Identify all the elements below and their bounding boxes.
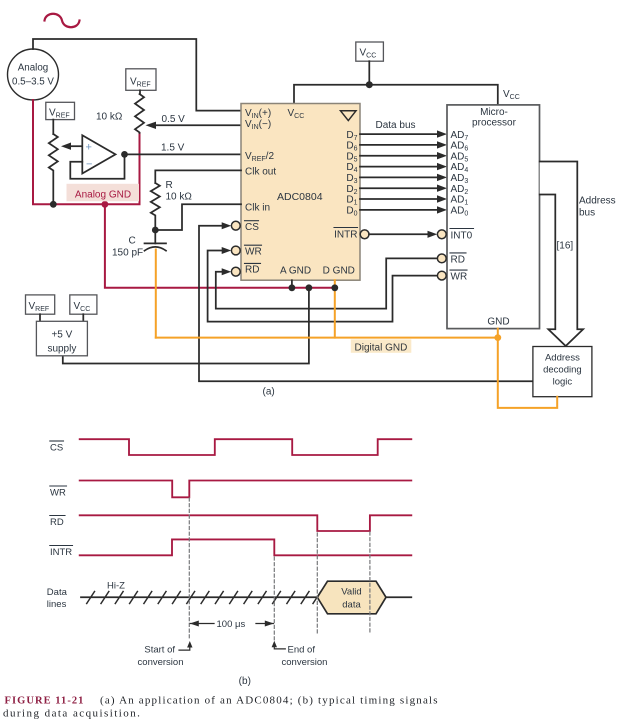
wire: 0.5 V tap to ADC VIN(-)	[155, 124, 241, 126]
svg-text:150 pF: 150 pF	[112, 248, 143, 259]
label: Data lines	[47, 587, 68, 610]
op-amp U1 (voltage follower)	[82, 135, 115, 173]
svg-text:Micro-: Micro-	[480, 107, 508, 118]
VCC box (supply output)	[70, 295, 97, 314]
svg-text:End of: End of	[288, 644, 316, 655]
svg-text:INTR: INTR	[50, 547, 72, 558]
analog source circle "Analog 0.5-3.5 V"	[8, 49, 59, 100]
wire: RD control (micro RD to ADC RD)	[216, 258, 437, 308]
svg-text:+5 V: +5 V	[51, 330, 72, 341]
svg-text:conversion: conversion	[282, 657, 328, 668]
svg-text:Address: Address	[579, 196, 616, 207]
label: RD waveform	[50, 516, 65, 529]
wire: digital GND bus (orange)	[156, 338, 557, 408]
wiper arrow of R2 (0.5 V tap)	[146, 122, 157, 129]
wire: junction to Clk in	[155, 204, 241, 230]
wire: micro GND stub (orange)	[497, 329, 499, 338]
svg-text:10 kΩ: 10 kΩ	[96, 112, 123, 123]
svg-text:1.5 V: 1.5 V	[161, 143, 185, 154]
pin circle: ADC WR	[231, 246, 240, 255]
svg-text:ADC0804: ADC0804	[277, 191, 323, 203]
svg-text:(a) An application of an ADC08: (a) An application of an ADC0804; (b) ty…	[100, 695, 439, 707]
node: op-amp output	[121, 151, 128, 158]
potentiometer R3 (vertical zigzag)	[49, 134, 58, 204]
VREF box (supply output)	[26, 295, 55, 314]
svg-text:[16]: [16]	[557, 241, 574, 252]
svg-text:INT0: INT0	[451, 230, 473, 241]
label: WR waveform	[50, 486, 67, 499]
dashed line: RD rise	[369, 532, 371, 635]
address decoding logic box	[533, 347, 592, 397]
data bus lines D7..D0 to AD7..AD0	[360, 134, 439, 210]
resistor R 10k: wire from Clk out	[155, 170, 241, 183]
node: supply return on bus	[306, 284, 313, 291]
svg-text:Clk in: Clk in	[245, 202, 270, 213]
potentiometer R2 10k (vertical zigzag)	[135, 94, 144, 133]
wire: CS control (address decoder to ADC CS)	[199, 226, 533, 382]
capacitor C 150 pF	[145, 230, 167, 251]
node: R/C/Clk-in junction	[152, 227, 159, 234]
data bus arrowheads	[437, 130, 447, 213]
svg-text:CS: CS	[50, 443, 63, 454]
wire: op-amp output 1.5 V to ADC VREF/2	[125, 153, 242, 155]
waveform: CS	[80, 439, 412, 455]
pin circle: micro RD	[437, 254, 446, 263]
svg-text:Valid: Valid	[341, 587, 361, 598]
waveform: WR	[80, 481, 412, 498]
hatch marks on Hi-Z bus	[87, 592, 321, 604]
arrowhead into ADC WR	[222, 247, 232, 254]
resistor R 10k (vertical zigzag)	[151, 183, 160, 230]
svg-text:data: data	[342, 600, 361, 611]
svg-text:+: +	[86, 142, 92, 154]
svg-text:supply: supply	[47, 344, 76, 355]
svg-text:during data acquisition.: during data acquisition.	[3, 708, 141, 720]
wire: WR control (micro WR to ADC WR)	[208, 251, 438, 322]
pin circle: ADC INTR	[360, 230, 369, 239]
node: D GND on A GND bus	[331, 284, 338, 291]
svg-text:WR: WR	[451, 272, 468, 283]
wire: analog source top to ADC VIN(+)	[33, 39, 241, 111]
arrowhead into ADC RD	[222, 268, 232, 275]
wire: analog source bottom to Analog GND bus (crimson)	[33, 100, 140, 204]
dashed line: RD fall	[316, 533, 318, 635]
svg-text:Data: Data	[47, 587, 68, 598]
wiper arrow of R3 to op-amp	[61, 143, 71, 150]
svg-text:0.5 V: 0.5 V	[162, 114, 186, 125]
dashed line: start of conversion	[188, 498, 190, 640]
waveform: data line after valid data	[386, 596, 411, 598]
node: digital GND junction (orange dot)	[494, 334, 501, 341]
wire: op-amp feedback loop	[70, 154, 124, 178]
svg-text:decoding: decoding	[543, 365, 582, 376]
wire: A GND stub	[291, 280, 293, 288]
svg-text:−: −	[86, 159, 92, 171]
dashed line: end of conversion	[273, 557, 275, 640]
svg-text:Start of: Start of	[144, 644, 175, 655]
svg-text:RD: RD	[451, 254, 465, 265]
svg-text:FIGURE 11-21: FIGURE 11-21	[5, 696, 85, 707]
wire: R3 wiper to op-amp + input	[70, 145, 82, 147]
valid data hexagon	[317, 581, 386, 614]
VCC box (top)	[356, 42, 384, 61]
address bus hollow arrow	[540, 162, 583, 347]
node: VCC junction	[366, 81, 373, 88]
svg-text:lines: lines	[47, 599, 67, 610]
svg-text:Clk out: Clk out	[245, 167, 276, 178]
wire: D GND stub to digital GND bus (orange)	[334, 280, 336, 337]
svg-text:RD: RD	[50, 517, 64, 528]
arrowhead into INT0	[428, 231, 438, 238]
svg-text:INTR: INTR	[334, 229, 357, 240]
wire: VREF box stub to supply	[39, 314, 41, 321]
label: End of conversion	[272, 641, 328, 668]
node: A GND on bus	[289, 284, 296, 291]
waveform: data line (Hi-Z segment)	[81, 596, 317, 598]
svg-text:Digital GND: Digital GND	[355, 343, 408, 354]
dimension arrows: 100 us	[190, 619, 274, 630]
wire: INTR to INT0	[369, 233, 429, 235]
VREF box (op-amp potentiometer)	[46, 102, 75, 119]
waveform: INTR	[80, 539, 412, 555]
svg-text:Hi-Z: Hi-Z	[107, 581, 125, 592]
VREF box (top potentiometer)	[126, 69, 156, 91]
label: Analog GND	[67, 184, 140, 202]
wire: VREF box to potentiometer R3	[52, 120, 54, 134]
svg-text:bus: bus	[579, 208, 595, 219]
microprocessor U3	[447, 105, 540, 329]
svg-text:(a): (a)	[263, 387, 275, 398]
waveform: RD	[80, 515, 412, 531]
svg-text:A GND: A GND	[280, 265, 311, 276]
wire: capacitor to digital GND (orange)	[155, 250, 157, 338]
wire: VCC box stub	[368, 61, 370, 84]
svg-text:D GND: D GND	[323, 265, 355, 276]
svg-text:(b): (b)	[239, 676, 251, 687]
pin circle: micro INT0	[437, 230, 446, 239]
ADC0804 chip U2	[241, 104, 360, 281]
label: CS waveform	[50, 441, 64, 454]
wire: analog GND down to A GND bus (crimson)	[105, 204, 335, 287]
svg-text:Analog GND: Analog GND	[75, 190, 131, 201]
label: Digital GND	[351, 339, 412, 353]
pin circle: micro WR	[437, 271, 446, 280]
svg-text:VIN(−): VIN(−)	[245, 119, 271, 131]
svg-text:10 kΩ: 10 kΩ	[166, 192, 193, 203]
svg-text:WR: WR	[245, 247, 262, 258]
svg-text:Address: Address	[545, 353, 580, 364]
svg-text:C: C	[129, 236, 136, 247]
svg-text:Data bus: Data bus	[376, 120, 416, 131]
svg-text:CS: CS	[245, 222, 259, 233]
wire: VCC box stub to supply	[82, 314, 84, 321]
node: R3 bottom on analog GND bus	[50, 201, 57, 208]
wire: VCC net (ADC VCC pin to microprocessor VCC)	[294, 85, 498, 105]
svg-text:logic: logic	[553, 377, 573, 388]
wire: VREF box to potentiometer R2	[139, 90, 141, 94]
TIMING DIAGRAM (b)	[47, 439, 412, 687]
svg-text:WR: WR	[50, 488, 66, 499]
arrowhead into CS	[222, 222, 232, 229]
label: INTR waveform	[50, 546, 73, 559]
svg-text:Analog: Analog	[18, 63, 49, 74]
svg-text:conversion: conversion	[138, 657, 184, 668]
svg-text:processor: processor	[472, 118, 517, 129]
svg-text:0.5–3.5 V: 0.5–3.5 V	[12, 77, 54, 88]
wire: +5V supply ground return	[63, 288, 309, 364]
svg-text:GND: GND	[487, 317, 509, 328]
svg-text:100 μs: 100 μs	[217, 619, 246, 630]
svg-text:RD: RD	[245, 265, 259, 276]
pin circle: ADC RD	[231, 267, 240, 276]
label: Start of conversion	[138, 641, 193, 668]
pin circle: ADC CS	[231, 221, 240, 230]
clock triangle symbol inside ADC	[341, 111, 357, 121]
svg-text:R: R	[166, 180, 173, 191]
sine-wave source symbol	[45, 14, 80, 28]
+5 V supply box	[36, 321, 87, 356]
node: analog GND junction (crimson dot)	[102, 201, 109, 208]
